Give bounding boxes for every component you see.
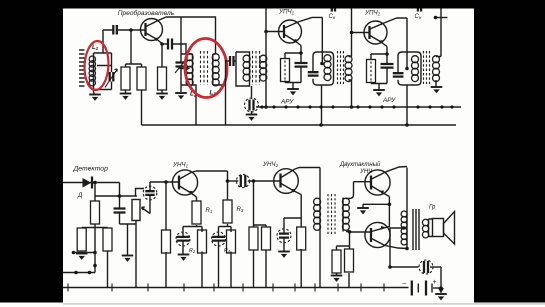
resistor bias2 UNCH2 (254, 225, 267, 288)
svg-text:УНЧ2: УНЧ2 (262, 161, 279, 168)
bias resistors pushpull (337, 232, 350, 288)
electrolytic C4 decoupling (219, 224, 232, 288)
interstage transformer secondary (342, 198, 344, 232)
ground between pushpull (363, 204, 389, 208)
ground RC UPCH2 (373, 90, 385, 96)
wire secondary3 bottom (349, 80, 352, 107)
resistor emitter UNCH2 (300, 195, 302, 288)
wire lower-left + dots (63, 272, 95, 274)
wire secondary2 top to rail (265, 8, 267, 56)
svg-text:УПЧ2: УПЧ2 (364, 10, 381, 17)
ground divider (120, 94, 132, 100)
wire volume line (95, 195, 137, 197)
wire C1 to base of Q1 (118, 29, 145, 31)
transistor UPCH1 (279, 17, 313, 45)
wire secondary4 top (436, 8, 441, 57)
ferrite antenna rod hatching (79, 50, 85, 86)
coil transformer2 primary (249, 56, 251, 80)
interstage transformer primary (319, 168, 321, 198)
electrolytic C2 bypass (183, 227, 202, 255)
ground C2 (178, 255, 190, 261)
electrolytic cap AGC (251, 86, 253, 99)
speaker (433, 219, 444, 237)
top letterbox bar (0, 0, 545, 9)
wire secondary4 bottom + ground (435, 80, 437, 87)
ground right with arrow (440, 267, 442, 290)
node base UPCH1 (264, 30, 268, 34)
tank UPCH1 frame (313, 52, 334, 85)
capacitor Cn2 (418, 4, 421, 12)
resistor R1 emitter UNCH1 (196, 197, 198, 227)
wire divider top (82, 227, 108, 230)
wire secondary2 bottom to AGC bus (265, 80, 267, 107)
output transformer core (413, 209, 419, 250)
svg-text:УНЧ1: УНЧ1 (172, 162, 189, 169)
wire L1 top riser to cap C1 (103, 30, 112, 53)
svg-text:Сн: Сн (329, 14, 336, 20)
transistor UNCH1 (172, 170, 197, 197)
dashed core L2L3 (201, 51, 208, 85)
bottom separator line (63, 303, 545, 304)
RC block UPCH1 (285, 46, 301, 89)
ground L1 (89, 95, 101, 101)
dashed core IFT3 (338, 51, 344, 84)
svg-text:Преобразователь: Преобразователь (118, 9, 175, 17)
svg-text:Сн: Сн (415, 14, 422, 20)
output transformer secondary (428, 219, 430, 237)
bottom bus (63, 287, 409, 289)
resistor R4 (230, 227, 232, 288)
coil secondary IFT4 (433, 56, 440, 82)
resistor R divider 2 (137, 67, 146, 90)
coil tank UPCH1 (324, 55, 331, 81)
tap arrow into L2 (180, 68, 185, 70)
svg-text:R1: R1 (206, 208, 213, 214)
ground AGC cap (246, 115, 258, 121)
svg-text:Двухтактный: Двухтактный (339, 161, 381, 168)
collector tap wire UPCH1 (312, 17, 322, 125)
bus ticks (68, 284, 384, 292)
ground det divider (76, 254, 88, 260)
potentiometer volume (136, 189, 145, 288)
coil L2 (181, 54, 196, 125)
transistor Q4 pushpull bottom (365, 222, 407, 248)
resistor bias UNCH2 (252, 179, 256, 183)
wire base node down (130, 30, 132, 64)
coil secondary IFT3 (345, 56, 352, 82)
resistor divider det 1 (77, 228, 86, 251)
svg-text:Гр: Гр (429, 205, 436, 211)
dashed core transformer2 (253, 51, 260, 85)
lower rail (142, 124, 457, 126)
coil transformer2 secondary (265, 56, 267, 80)
electrolytic filter cap (390, 266, 419, 268)
transistor UPCH2 (364, 18, 397, 47)
resistor R3 collector load (227, 171, 229, 200)
AGC bus (256, 106, 461, 108)
svg-text:R3: R3 (237, 207, 244, 213)
svg-text:+: + (433, 279, 437, 286)
center tap wire (390, 228, 404, 267)
tank UPCH2 frame (398, 52, 421, 85)
resistor R divider 1 (121, 67, 130, 90)
coil L3 (213, 54, 226, 85)
capacitor C1 (113, 25, 117, 35)
ground RC UPCH1 (287, 89, 299, 95)
dashed core IFT4 (424, 51, 430, 84)
AGC bus junction dots (260, 105, 453, 108)
trimmer capacitor tank1 (180, 17, 182, 92)
resistor bias UNCH1 (165, 182, 167, 288)
collector tap wire UPCH2 (397, 18, 408, 125)
red ellipse around L1 (83, 40, 109, 90)
emitter common wire (388, 197, 390, 228)
capacitor tank UPCH2 (393, 73, 404, 76)
dashed core interstage (328, 194, 335, 234)
RC block UPCH2 (371, 47, 387, 90)
svg-text:L1: L1 (92, 45, 99, 51)
svg-text:АРУ: АРУ (280, 99, 294, 106)
coil L1 (89, 56, 95, 86)
resistor divider det 2 (107, 251, 109, 288)
ground cap filter (122, 256, 134, 262)
wire to base UPCH1 (266, 31, 284, 33)
red ellipse around L2 L3 (184, 38, 228, 98)
resistor R2 (201, 227, 203, 288)
node emitter (160, 42, 164, 46)
svg-text:УПЧ1: УПЧ1 (278, 9, 295, 16)
svg-text:Детектор: Детектор (73, 166, 109, 173)
electrolytic bypass UNCH2 (284, 218, 301, 251)
ground emitter R (156, 94, 168, 100)
right letterbox bar (474, 0, 545, 303)
wire junction row (72, 253, 95, 273)
capacitor C4 (226, 60, 230, 62)
tank frame transformer2 (236, 52, 250, 86)
node base UPCH2 (350, 31, 354, 35)
transistor Q1 converter (141, 17, 167, 44)
junction right supply (435, 17, 448, 19)
wire L3 bottom down to rail (225, 60, 227, 125)
ground trimmer (175, 93, 187, 99)
wire collector top rail (166, 17, 216, 54)
svg-text:R2: R2 (189, 248, 196, 254)
wire secondary bottom to base Q4 (346, 231, 371, 234)
diode D with line (63, 182, 120, 184)
svg-text:АРУ: АРУ (382, 97, 396, 104)
collector wire UNCH1 (196, 170, 228, 172)
capacitor tank UPCH1 (308, 72, 319, 75)
capacitor C3 emitter (162, 44, 190, 54)
left letterbox bar (0, 0, 63, 303)
transistor Q3 pushpull top (365, 167, 407, 197)
wire detector output down (120, 183, 137, 256)
capacitor Cn1 (332, 4, 335, 12)
wire secondary3 top (349, 8, 352, 57)
capacitor detector filter (114, 209, 126, 213)
wire secondary top to base Q3 (346, 182, 371, 199)
svg-text:Д: Д (77, 192, 83, 199)
battery (412, 281, 426, 296)
node R load (93, 181, 97, 185)
transistor UNCH2 (274, 168, 302, 195)
electrolytic coupling UNCH2 (228, 180, 239, 182)
coil tank UPCH2 (412, 56, 419, 82)
output transformer primary (406, 168, 408, 212)
wire to base UPCH2 (352, 32, 370, 34)
collector rail UNCH2 (299, 167, 320, 169)
node base divider (129, 28, 133, 32)
electrolytic C coupling to UNCH1 (143, 186, 157, 200)
resistor R load (94, 183, 96, 253)
variable capacitor C2 with arrow (110, 72, 114, 82)
resistor R emitter (161, 44, 163, 93)
tap box L1 (94, 53, 112, 72)
